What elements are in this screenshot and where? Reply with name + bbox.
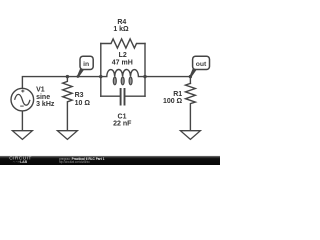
wire: V1 top to main rail to network left — [22, 77, 100, 89]
svg-text:R1: R1 — [173, 91, 182, 98]
svg-text:L2: L2 — [119, 52, 127, 59]
resistor R1 (vertical) — [186, 83, 196, 130]
svg-text:http://circuitlab.com/c6z86hta: http://circuitlab.com/c6z86hta — [59, 160, 90, 164]
svg-text:22 nF: 22 nF — [113, 121, 132, 128]
wire: C1 bottom branch right — [125, 95, 145, 97]
inductor L2 — [101, 70, 145, 85]
svg-text:∼∼»LAB: ∼∼»LAB — [13, 160, 28, 164]
wire: V1 bottom to ground — [21, 111, 23, 131]
svg-text:sine: sine — [36, 94, 50, 101]
wire: C1 bottom branch left — [101, 95, 120, 97]
svg-text:in: in — [83, 61, 89, 68]
labels — [36, 19, 182, 128]
svg-text:R3: R3 — [75, 92, 84, 99]
voltage source V1 — [11, 88, 34, 111]
svg-text:C1: C1 — [118, 114, 127, 121]
ground (R1) — [180, 131, 200, 140]
node: junction network-right/rail — [143, 75, 146, 78]
node: junction R1/rail (out) — [189, 75, 192, 78]
flag "out" — [190, 56, 210, 77]
wire: network right vertical — [144, 44, 146, 97]
wire: main rail right segment to R1 corner — [145, 77, 190, 84]
node: junction R3/rail — [66, 75, 69, 78]
svg-text:V1: V1 — [36, 87, 45, 94]
resistor R3 (vertical) — [63, 77, 72, 131]
node: junction network-left/rail — [99, 75, 102, 78]
flag "in" — [77, 56, 94, 78]
resistor R4 (horizontal, top branch) — [101, 39, 145, 48]
capacitor C1 plates — [121, 88, 125, 106]
svg-text:3 kHz: 3 kHz — [36, 101, 55, 108]
svg-text:R4: R4 — [117, 19, 126, 26]
ground (R3) — [57, 131, 77, 140]
wire: network left vertical — [100, 44, 102, 97]
svg-text:47 mH: 47 mH — [112, 59, 133, 66]
ground (V1) — [12, 131, 32, 140]
svg-text:100 Ω: 100 Ω — [163, 98, 183, 105]
footer bar — [0, 156, 220, 165]
svg-text:10 Ω: 10 Ω — [75, 100, 91, 107]
svg-text:1 kΩ: 1 kΩ — [113, 26, 129, 33]
svg-text:out: out — [196, 61, 207, 68]
